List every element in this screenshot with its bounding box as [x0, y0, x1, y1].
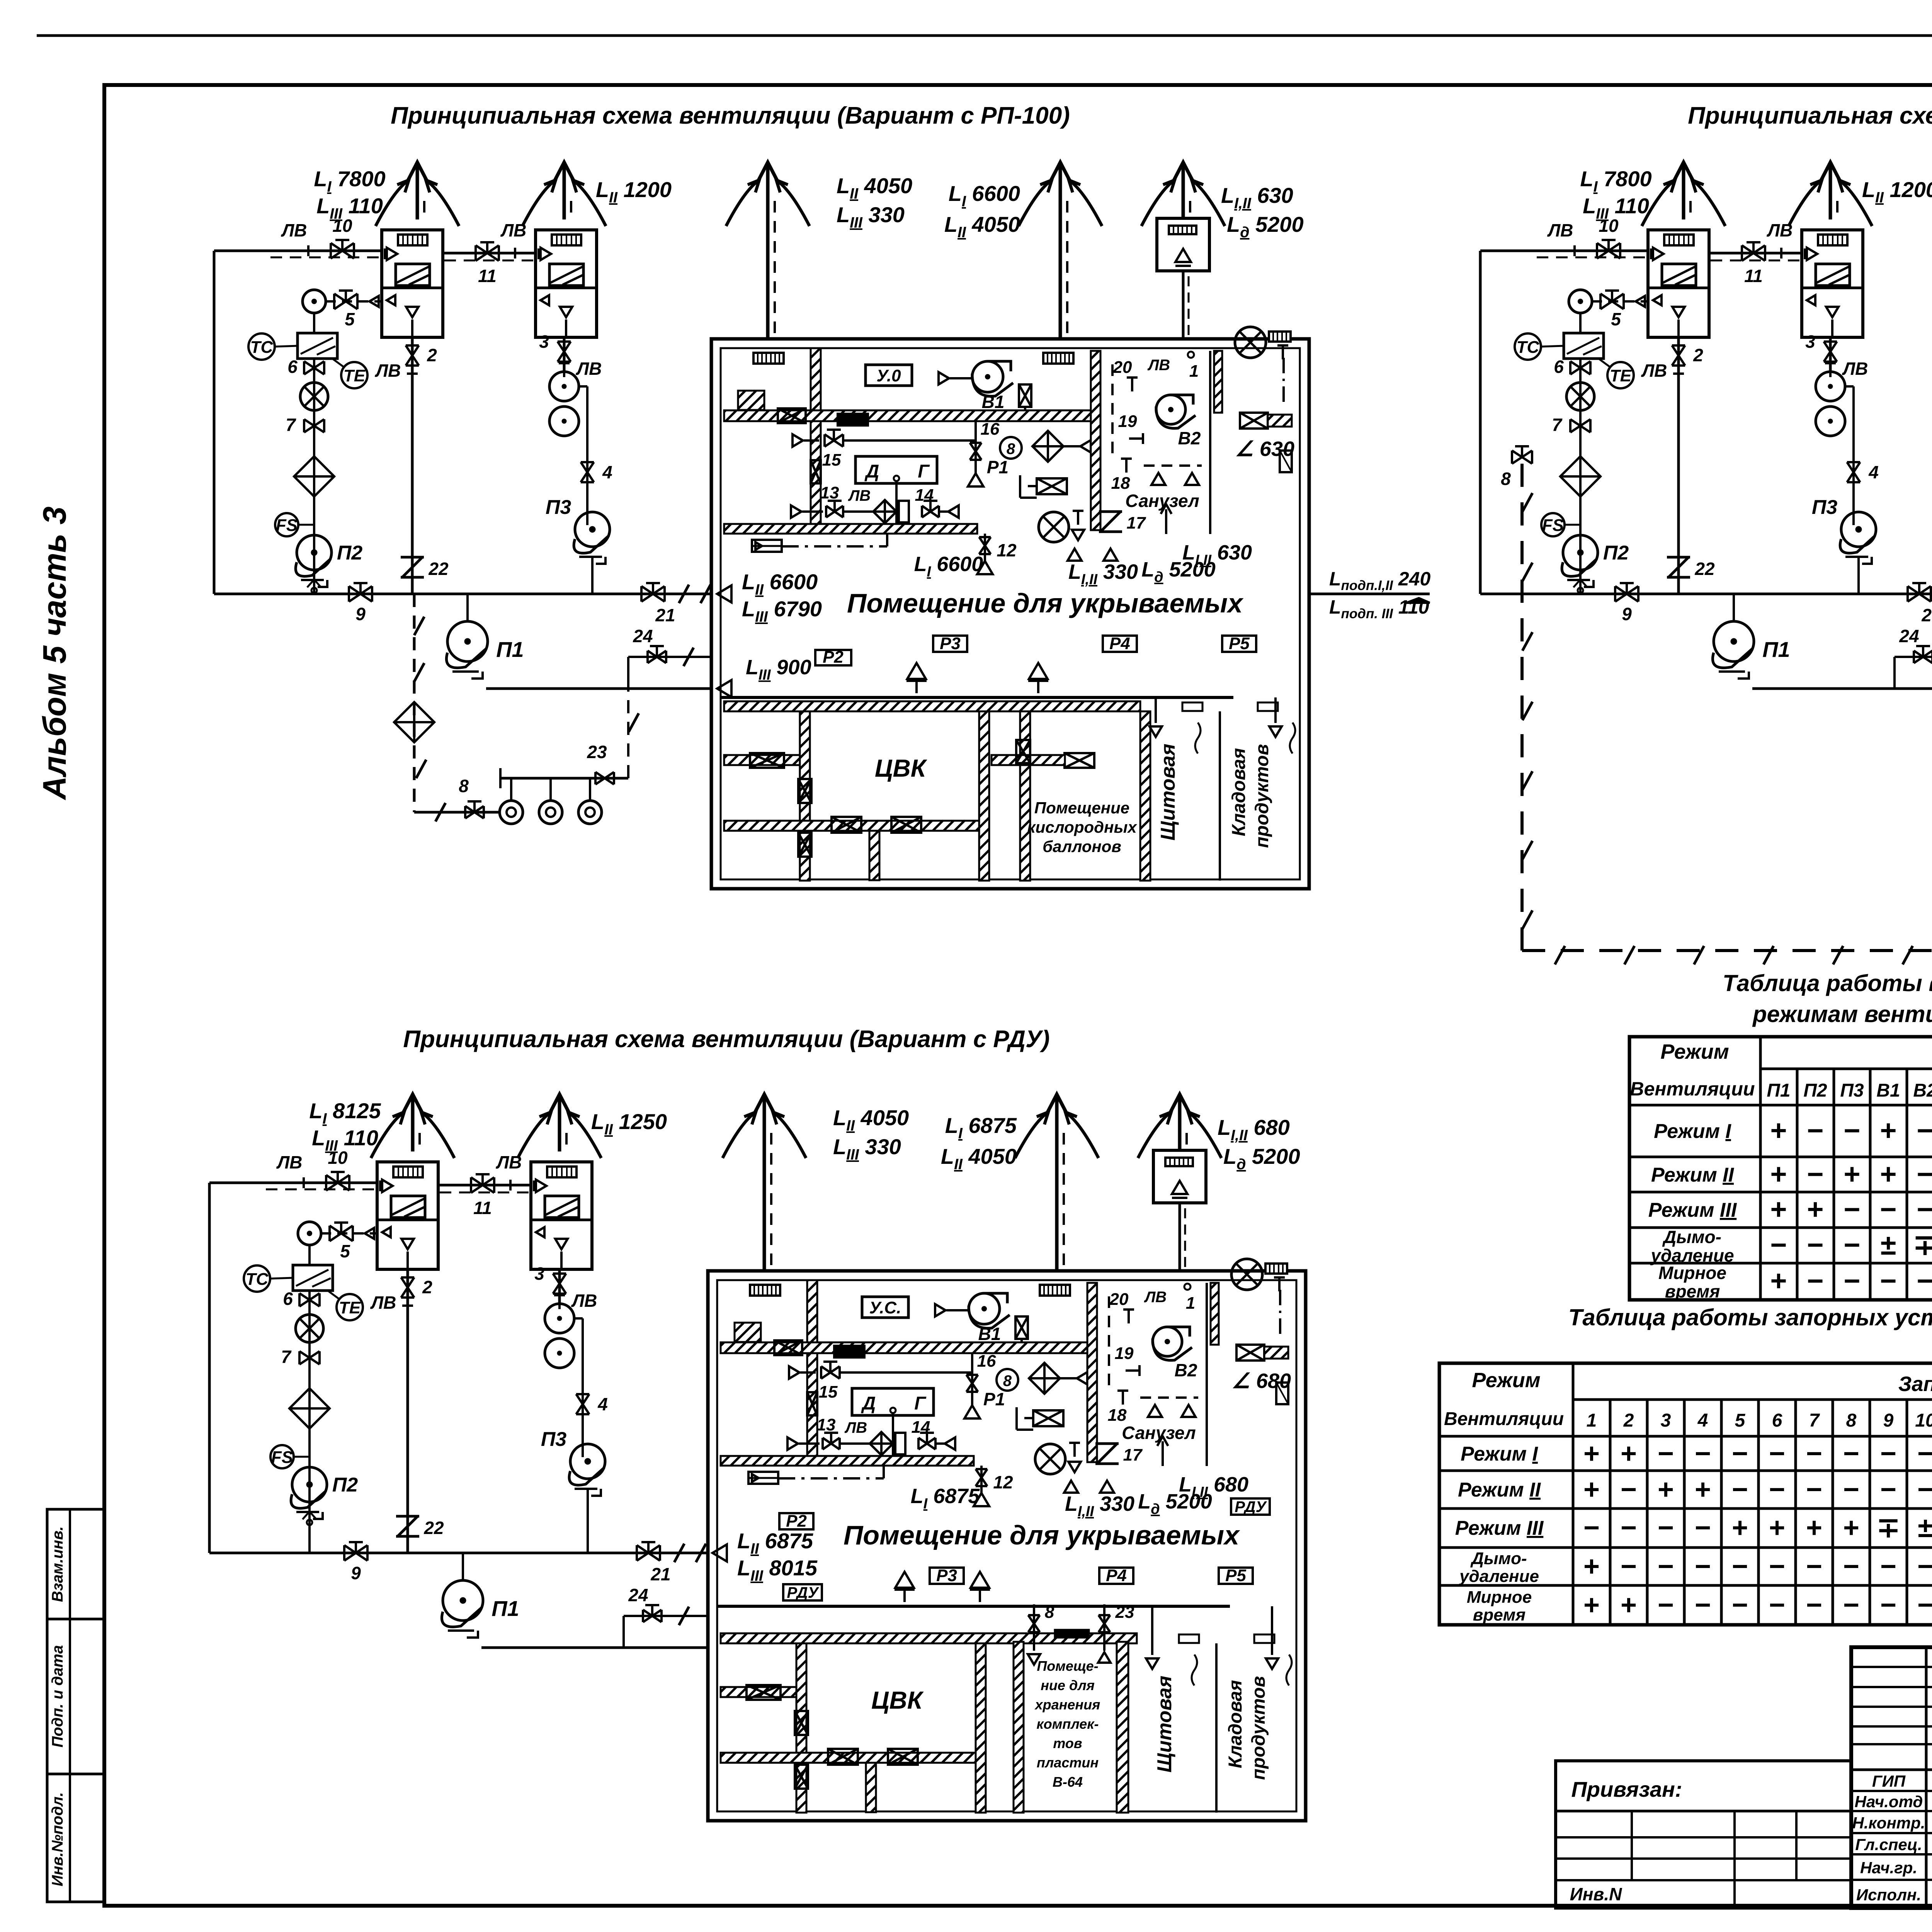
svg-text:пластин: пластин	[1037, 1755, 1099, 1770]
svg-text:−: −	[1807, 1158, 1823, 1190]
S3: damper 22	[396, 1516, 419, 1536]
S3: supply stack 2 with exhaust arrows	[558, 1117, 561, 1151]
R1: duct damper	[778, 408, 806, 423]
S2: valve 9	[1615, 586, 1638, 602]
svg-text:Таблица работы вентсистем по: Таблица работы вентсистем по	[1723, 970, 1932, 996]
S3: thermostat TC	[244, 1265, 270, 1292]
svg-text:24: 24	[633, 626, 653, 646]
svg-text:11: 11	[1744, 266, 1763, 286]
R1: drop 16	[975, 421, 977, 474]
svg-text:Санузел: Санузел	[1125, 491, 1199, 511]
S2: П1 discharge wire	[1752, 687, 1932, 690]
svg-text:16: 16	[977, 1352, 996, 1371]
R1: damper 18	[1121, 459, 1132, 473]
R1: gauge circle 8	[1000, 437, 1022, 459]
svg-text:LIII 8015: LIII 8015	[737, 1556, 818, 1584]
R1: box Р3	[933, 636, 967, 652]
svg-text:LI 7800: LI 7800	[1580, 167, 1651, 195]
svg-text:20: 20	[1113, 358, 1132, 377]
svg-text:−: −	[1732, 1551, 1748, 1582]
R1: diamond filter	[1032, 431, 1063, 462]
svg-text:9: 9	[1622, 604, 1632, 624]
svg-text:РДУ: РДУ	[1235, 1498, 1267, 1515]
svg-text:18: 18	[1111, 474, 1130, 493]
R1: relief triangles	[1068, 549, 1082, 561]
R3: squiggle vents under supply	[1151, 1606, 1153, 1655]
svg-text:Г: Г	[918, 461, 930, 482]
S3: stack 5 drop wire	[1179, 1203, 1181, 1271]
svg-text:Нач.гр.: Нач.гр.	[1860, 1859, 1917, 1877]
title block small upper rows	[1851, 1666, 1932, 1668]
svg-text:ние для: ние для	[1041, 1677, 1095, 1693]
svg-text:+: +	[1880, 1158, 1896, 1190]
svg-text:П3: П3	[1840, 1080, 1864, 1101]
svg-text:−: −	[1695, 1590, 1711, 1621]
svg-text:время: время	[1473, 1605, 1526, 1624]
R3: valve row above lower duct	[787, 1437, 798, 1450]
svg-text:2: 2	[422, 1277, 432, 1297]
R1: duct filter	[838, 414, 868, 425]
svg-text:−: −	[1806, 1590, 1822, 1621]
S1: air handling unit AHU-1	[382, 230, 443, 337]
S2: air handling unit AHU-2	[1802, 230, 1863, 337]
svg-text:−: −	[1917, 1114, 1932, 1146]
svg-text:П1: П1	[496, 637, 524, 662]
svg-text:LII 4050: LII 4050	[944, 212, 1020, 241]
svg-text:ТС: ТС	[1517, 338, 1540, 357]
svg-text:1: 1	[1587, 1410, 1597, 1431]
svg-text:FS: FS	[276, 516, 298, 535]
R1: ceiling grille left	[753, 353, 784, 364]
S2: AHU-1 discharge riser	[1677, 337, 1680, 594]
R1: ЦВК walls	[800, 711, 810, 881]
svg-text:24: 24	[628, 1585, 648, 1605]
svg-text:17: 17	[1123, 1446, 1143, 1464]
svg-text:Режим III: Режим III	[1648, 1199, 1737, 1221]
S3: AHU-2 discharge riser	[558, 1269, 561, 1304]
S2: long dashed return main	[1520, 464, 1524, 951]
S1: attenuator circles	[549, 372, 579, 401]
S3: valve 4	[576, 1394, 589, 1414]
svg-text:+: +	[1770, 1193, 1787, 1225]
S3: inflow arrow to room	[713, 1544, 727, 1561]
svg-text:В2: В2	[1175, 1360, 1197, 1380]
svg-text:ЛВ: ЛВ	[375, 361, 401, 381]
S2: valve 4	[1847, 462, 1860, 482]
svg-text:продуктов: продуктов	[1252, 744, 1272, 848]
R3: room outer wall	[708, 1271, 1306, 1821]
S1: wire breaks	[679, 585, 689, 603]
S3: recirculation air damper with sensor circle	[298, 1222, 321, 1245]
svg-text:22: 22	[1694, 559, 1715, 579]
R3: В-64 storage room walls	[1014, 1642, 1024, 1813]
table 2: shutoff devices by mode	[1439, 1363, 1932, 1625]
S3: damper ЛВ	[402, 1306, 413, 1320]
svg-text:21: 21	[1921, 605, 1932, 625]
S2: flow device circle-X	[1566, 383, 1594, 410]
svg-text:ЛВ: ЛВ	[571, 1291, 597, 1311]
S3: valve 7	[299, 1351, 320, 1364]
svg-text:Помещение для укрываемых: Помещение для укрываемых	[844, 1520, 1240, 1550]
svg-text:В2: В2	[1178, 428, 1201, 448]
svg-text:Подп. и дата: Подп. и дата	[49, 1645, 66, 1748]
svg-text:+: +	[1770, 1114, 1787, 1146]
S3: outside-air wire to AHU-1	[209, 1182, 377, 1184]
S3: valve 21	[637, 1545, 660, 1561]
svg-text:Lд 5200: Lд 5200	[1223, 1144, 1300, 1173]
R3: valve 12	[980, 1466, 983, 1493]
svg-text:−: −	[1917, 1590, 1932, 1621]
svg-text:Р5: Р5	[1225, 1566, 1246, 1585]
svg-text:Принципиальная схема вентиляци: Принципиальная схема вентиляции (Вариант…	[403, 1026, 1049, 1053]
S3: valve 10	[326, 1175, 349, 1190]
svg-text:2: 2	[427, 345, 437, 365]
svg-text:8: 8	[1045, 1603, 1054, 1622]
svg-text:Дымо-: Дымо-	[1662, 1227, 1721, 1247]
S2: sensor TE	[1607, 362, 1634, 388]
S1: valve 8	[465, 806, 484, 818]
svg-text:LI,II 630: LI,II 630	[1221, 183, 1293, 212]
svg-text:−: −	[1695, 1438, 1711, 1469]
svg-text:−: −	[1843, 1551, 1859, 1582]
svg-text:19: 19	[1118, 412, 1137, 431]
S1: exhaust stack 4	[1059, 185, 1062, 339]
S3: valve 3	[553, 1274, 566, 1294]
svg-text:+: +	[1695, 1474, 1711, 1505]
svg-text:−: −	[1917, 1551, 1932, 1582]
svg-text:П1: П1	[1767, 1080, 1790, 1101]
R1: В1 damper	[1019, 384, 1031, 407]
S1: recirculation air damper with sensor circle	[303, 290, 326, 313]
S3: roof exhaust unit box	[1153, 1150, 1206, 1203]
svg-text:Р1: Р1	[983, 1389, 1005, 1409]
svg-text:комплек-: комплек-	[1036, 1716, 1099, 1732]
svg-text:П2: П2	[337, 542, 362, 564]
svg-text:Р4: Р4	[1106, 1566, 1127, 1585]
S2: main suction wire	[1480, 593, 1932, 595]
svg-text:Кладовая: Кладовая	[1225, 1680, 1246, 1768]
R3: supply end boxes	[1179, 1634, 1199, 1643]
svg-text:Щитовая: Щитовая	[1153, 1676, 1176, 1773]
R1: upper duct run	[724, 410, 1097, 421]
svg-text:ТЕ: ТЕ	[339, 1298, 361, 1317]
S3: supply stack 1 with exhaust arrows	[411, 1117, 415, 1151]
svg-text:Д: Д	[864, 461, 879, 482]
svg-text:8: 8	[1007, 440, 1015, 457]
svg-text:Альбом 5 часть 3: Альбом 5 часть 3	[36, 507, 73, 801]
R3: duct filter	[834, 1346, 864, 1357]
S1: П1 discharge wire	[486, 687, 711, 690]
svg-text:Р4: Р4	[1109, 634, 1130, 653]
svg-text:Режим II: Режим II	[1458, 1479, 1541, 1501]
svg-text:−: −	[1732, 1438, 1748, 1469]
S3: fan П3	[570, 1444, 605, 1479]
svg-text:−: −	[1880, 1265, 1896, 1297]
svg-text:Инв.N: Инв.N	[1570, 1884, 1622, 1904]
S3: valve 5	[330, 1226, 353, 1241]
S1: dashed riser to damper 24	[627, 657, 629, 778]
R3: valve 15 row	[789, 1366, 799, 1379]
R3: lower mid duct	[721, 1753, 976, 1763]
S2: inlet check on AHU-1 side	[1636, 296, 1645, 307]
svg-text:20: 20	[1109, 1290, 1129, 1309]
R1: room supply main	[721, 696, 1233, 699]
S2: valve 8 on return	[1512, 451, 1532, 464]
S2: damper ЛВ	[1825, 363, 1836, 377]
R1: partition wall vertical	[811, 348, 821, 530]
S1: left return riser wire	[213, 251, 216, 594]
svg-text:+: +	[1844, 1158, 1860, 1190]
svg-text:Таблица работы запорных устрой: Таблица работы запорных устройств по реж…	[1568, 1304, 1932, 1330]
svg-text:ТЕ: ТЕ	[1610, 366, 1632, 385]
svg-text:7: 7	[1552, 415, 1563, 435]
svg-text:+: +	[1621, 1438, 1637, 1469]
svg-text:LII 4050: LII 4050	[833, 1105, 909, 1134]
S3: valve 9	[344, 1545, 367, 1561]
svg-text:Принципиальная схема вентиляц: Принципиальная схема вентиляции (Вариант…	[1688, 102, 1932, 129]
R1: exhaust valve circle	[1039, 512, 1069, 542]
svg-text:21: 21	[650, 1564, 670, 1584]
R3: lower vertical duct	[866, 1763, 876, 1812]
svg-text:−: −	[1844, 1265, 1860, 1297]
svg-text:ЦВК: ЦВК	[875, 754, 927, 782]
S3: instrument chain wire	[308, 1245, 311, 1265]
S2: duct heater	[1564, 333, 1604, 359]
svg-text:+: +	[1843, 1512, 1859, 1543]
svg-text:Р2: Р2	[823, 648, 844, 667]
svg-text:6: 6	[287, 357, 298, 377]
svg-text:продуктов: продуктов	[1248, 1676, 1269, 1780]
R3: damper box on partition	[807, 1392, 817, 1415]
svg-text:Гл.спец.: Гл.спец.	[1855, 1835, 1922, 1854]
S1: supply stack 1 with exhaust arrows	[416, 185, 419, 219]
S2: valve 7	[1570, 419, 1590, 432]
svg-text:19: 19	[1115, 1344, 1134, 1363]
svg-text:4: 4	[597, 1394, 608, 1414]
svg-text:LIII 6790: LIII 6790	[742, 597, 822, 625]
S1: duct heater	[298, 333, 337, 359]
R1: lower zone ceiling	[724, 701, 1140, 711]
svg-text:LIII 330: LIII 330	[833, 1134, 901, 1163]
R3: relief triangles	[1064, 1481, 1078, 1493]
S3: AHU-1 discharge riser	[406, 1269, 409, 1553]
R3: diamond filter	[1029, 1363, 1060, 1394]
S1: valve 2	[406, 345, 419, 366]
svg-text:+: +	[1770, 1158, 1787, 1190]
svg-text:5: 5	[1735, 1410, 1746, 1431]
svg-text:3: 3	[534, 1264, 544, 1284]
svg-text:ЛВ: ЛВ	[844, 1419, 867, 1436]
S3: exhaust stack 4	[1055, 1117, 1059, 1271]
S3: main suction wire	[209, 1552, 707, 1554]
R3: valve 8 inside	[1028, 1615, 1040, 1632]
svg-text:8: 8	[1846, 1410, 1857, 1431]
S2: valve 6	[1570, 361, 1590, 374]
svg-text:ЛВ: ЛВ	[1547, 220, 1573, 240]
svg-text:4: 4	[602, 462, 612, 482]
svg-text:ЛВ: ЛВ	[848, 487, 871, 504]
S1: outside-air wire to AHU-1	[214, 250, 382, 252]
svg-text:Санузел: Санузел	[1122, 1423, 1196, 1443]
svg-text:15: 15	[822, 451, 841, 469]
svg-text:П1: П1	[1762, 637, 1790, 662]
svg-text:удаление: удаление	[1459, 1567, 1539, 1586]
R1: lower vertical duct	[869, 831, 879, 880]
svg-text:LII 6600: LII 6600	[742, 570, 818, 598]
R3: gauge circle 8	[997, 1369, 1018, 1391]
R3: exhaust arrow with flow label	[1162, 1441, 1164, 1466]
svg-text:П3: П3	[541, 1428, 566, 1451]
svg-text:8: 8	[459, 776, 469, 796]
svg-text:6: 6	[1554, 357, 1564, 377]
svg-text:−: −	[1917, 1193, 1932, 1225]
S2: attenuator circles	[1816, 372, 1845, 401]
S3: exhaust stack 5	[1178, 1117, 1182, 1150]
S2: supply stack 1 with exhaust arrows	[1682, 185, 1685, 219]
svg-text:−: −	[1806, 1474, 1822, 1505]
S1: damper ЛВ	[501, 248, 515, 259]
R1: box Р5	[1222, 636, 1256, 652]
R3: lower zone ceiling	[721, 1633, 1137, 1643]
S2: thermostat TC	[1515, 333, 1541, 360]
R3: Кладовая wall	[1215, 1643, 1218, 1813]
S2: air handling unit AHU-1	[1648, 230, 1709, 337]
S3: П1 discharge wire	[481, 1646, 707, 1649]
R1: damper box on partition	[811, 460, 821, 483]
svg-text:21: 21	[655, 605, 675, 625]
S3: fan П2	[292, 1467, 327, 1502]
R3: duct damper	[774, 1340, 802, 1355]
svg-text:4: 4	[1868, 462, 1879, 482]
svg-text:−: −	[1732, 1474, 1748, 1505]
svg-text:12: 12	[997, 540, 1017, 560]
svg-text:−: −	[1917, 1158, 1932, 1190]
svg-text:4: 4	[1697, 1410, 1708, 1431]
svg-text:Мирное: Мирное	[1467, 1588, 1532, 1607]
title block outer	[1851, 1647, 1932, 1908]
svg-text:−: −	[1880, 1551, 1896, 1582]
R3: sanuzel compartment	[1096, 1283, 1098, 1462]
svg-text:1: 1	[1189, 362, 1199, 381]
table 1: vent systems by mode	[1629, 1037, 1932, 1300]
svg-text:Вентиляции: Вентиляции	[1630, 1078, 1755, 1100]
R3: exhaust valve circle	[1035, 1444, 1065, 1474]
S2: supply stack 2 with exhaust arrows	[1829, 185, 1832, 219]
svg-text:−: −	[1769, 1474, 1785, 1505]
S3: wire AHU-1 to AHU-2	[438, 1184, 531, 1187]
svg-text:В1: В1	[978, 1324, 1001, 1344]
R1: wall damper box	[1016, 740, 1030, 763]
privyazan block	[1556, 1761, 1851, 1908]
svg-text:23: 23	[587, 742, 607, 762]
svg-text:−: −	[1843, 1590, 1859, 1621]
S1: valve 5	[334, 294, 357, 309]
R3: ceiling grille right	[1040, 1285, 1070, 1296]
R1: oxygen room walls	[1020, 711, 1030, 881]
S1: damper 22	[401, 557, 424, 577]
svg-text:+: +	[1806, 1512, 1822, 1543]
svg-text:LII 1200: LII 1200	[1862, 177, 1932, 206]
svg-text:+: +	[1621, 1590, 1637, 1621]
S1: valve 23	[595, 772, 614, 784]
svg-text:ЦВК: ЦВК	[871, 1686, 924, 1714]
svg-text:±: ±	[1918, 1512, 1932, 1543]
S3: valve 6	[299, 1293, 320, 1306]
svg-text:Н.контр.: Н.контр.	[1852, 1814, 1925, 1832]
S3: duct heater	[293, 1265, 333, 1291]
svg-text:ТС: ТС	[250, 338, 274, 357]
R3: ЦВК walls	[796, 1643, 806, 1813]
svg-text:8: 8	[1003, 1372, 1012, 1389]
R3: box Р4	[1099, 1568, 1133, 1584]
svg-text:−: −	[1658, 1512, 1674, 1543]
svg-text:П1: П1	[492, 1596, 519, 1621]
S1: fan П3	[575, 512, 610, 547]
svg-text:−: −	[1806, 1438, 1822, 1469]
R1: lower left duct	[724, 755, 800, 765]
svg-text:LI 8125: LI 8125	[309, 1099, 381, 1127]
svg-text:Запорные устройства: Запорные устройства	[1898, 1372, 1932, 1396]
svg-text:ГИП: ГИП	[1872, 1772, 1906, 1790]
svg-text:−: −	[1880, 1193, 1896, 1225]
svg-text:Р2: Р2	[786, 1512, 807, 1531]
S3: fan П1	[462, 1553, 464, 1579]
svg-text:ЛВ: ЛВ	[281, 220, 307, 240]
R1: valve 15 row	[793, 434, 803, 447]
R3: drop 16	[971, 1353, 973, 1406]
S1: damper ЛВ	[559, 363, 570, 377]
R1: duct heater box	[738, 391, 764, 410]
S1: oxygen cylinders	[500, 777, 628, 780]
svg-text:−: −	[1843, 1474, 1859, 1505]
svg-text:Привязан:: Привязан:	[1571, 1777, 1682, 1801]
svg-text:Мирное: Мирное	[1658, 1263, 1726, 1283]
svg-text:+: +	[1807, 1193, 1823, 1225]
S2: fan П3	[1841, 512, 1876, 547]
svg-text:15: 15	[819, 1383, 838, 1401]
S3: attenuator circles	[545, 1304, 574, 1333]
S2: recirculation air damper with sensor circle	[1569, 290, 1592, 313]
svg-text:−: −	[1806, 1551, 1822, 1582]
svg-text:+: +	[1658, 1474, 1674, 1505]
svg-text:тов: тов	[1053, 1735, 1082, 1751]
S2: wire AHU-1 to AHU-2	[1709, 252, 1802, 255]
svg-text:П3: П3	[546, 496, 571, 519]
svg-text:−: −	[1658, 1438, 1674, 1469]
svg-text:П3: П3	[1812, 496, 1837, 519]
svg-text:Р3: Р3	[936, 1566, 957, 1585]
svg-text:П2: П2	[332, 1474, 358, 1496]
svg-text:23: 23	[1115, 1603, 1134, 1622]
svg-text:РДУ: РДУ	[787, 1584, 819, 1601]
S1: exhaust stack 5	[1182, 185, 1185, 218]
S1: filter diamond	[294, 456, 334, 497]
svg-text:10: 10	[1915, 1410, 1932, 1431]
R3: partition wall vertical	[807, 1280, 817, 1462]
R1: lower duct run	[724, 524, 977, 534]
S3: air handling unit AHU-2	[531, 1162, 592, 1269]
S3: wire breaks	[674, 1544, 684, 1562]
svg-text:+: +	[1769, 1512, 1785, 1543]
R3: lower duct run	[721, 1456, 974, 1466]
svg-text:−: −	[1807, 1114, 1823, 1146]
S3: flow device circle-X	[296, 1315, 323, 1342]
svg-text:ЛВ: ЛВ	[496, 1152, 522, 1172]
R1: right compartment wall	[1214, 351, 1222, 413]
S3: air handling unit AHU-1	[377, 1162, 438, 1269]
svg-text:+: +	[1732, 1512, 1748, 1543]
svg-text:кислородных: кислородных	[1027, 818, 1137, 836]
